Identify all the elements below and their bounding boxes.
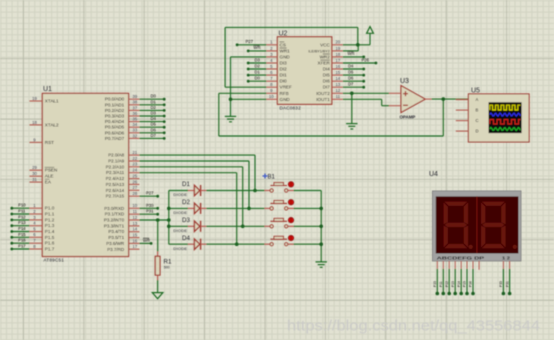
push button key 1 <box>265 182 294 192</box>
svg-text:P15: P15 <box>463 281 467 287</box>
net label D0 wire at U2 <box>247 76 267 83</box>
svg-text:21: 21 <box>132 150 137 155</box>
svg-text:P31: P31 <box>505 281 509 287</box>
net label D1 wire at U2 <box>247 69 267 76</box>
wire P3.2 to diode anode bus <box>139 219 168 221</box>
svg-text:U3: U3 <box>400 78 409 85</box>
svg-text:WR2: WR2 <box>320 54 331 59</box>
power arrow VCC <box>367 27 374 34</box>
svg-text:15: 15 <box>335 70 340 75</box>
svg-text:IOUT1: IOUT1 <box>316 97 330 102</box>
svg-text:D4: D4 <box>348 63 354 68</box>
chip body U1 <box>42 86 128 263</box>
svg-text:P10: P10 <box>18 203 26 208</box>
svg-text:36: 36 <box>132 111 137 116</box>
svg-text:P30: P30 <box>146 203 154 208</box>
svg-text:P11: P11 <box>439 281 443 287</box>
svg-text:P1.4: P1.4 <box>45 229 55 234</box>
svg-text:D1: D1 <box>255 69 261 74</box>
svg-text:RFB: RFB <box>280 91 289 96</box>
resistor R1 <box>155 252 172 281</box>
svg-text:31: 31 <box>32 177 37 182</box>
svg-text:18: 18 <box>32 120 37 125</box>
svg-text:P2.2/A10: P2.2/A10 <box>106 164 125 169</box>
junction IOUT2 ground tap <box>350 92 354 96</box>
wire P2.2 to key row 3 <box>139 167 242 227</box>
svg-text:P3.6/WR: P3.6/WR <box>106 241 125 246</box>
display pin P13 <box>451 261 457 295</box>
svg-text:20: 20 <box>335 40 340 45</box>
svg-text:P3.7/RD: P3.7/RD <box>107 247 125 252</box>
svg-text:P3.0/RXD: P3.0/RXD <box>104 206 125 211</box>
wire key 1 to ground bus <box>294 190 322 192</box>
svg-text:GND: GND <box>280 97 291 102</box>
svg-text:23: 23 <box>132 162 137 167</box>
junction key4 ground <box>319 242 323 246</box>
diode D1 <box>169 181 207 197</box>
svg-text:P0.5/AD5: P0.5/AD5 <box>105 125 125 130</box>
svg-text:D0: D0 <box>151 94 157 99</box>
wire R1 to ground <box>157 280 159 293</box>
svg-text:C: C <box>476 118 479 123</box>
display pin P14 <box>457 261 463 295</box>
svg-text:P16: P16 <box>469 281 473 287</box>
display pin P12 <box>445 261 451 295</box>
wire D3 cathode to key 3 <box>206 225 264 227</box>
wire P2.1 to key row 2 <box>139 161 249 208</box>
net label D7 wire at U2 <box>343 82 365 89</box>
svg-text:P0.7/AD7: P0.7/AD7 <box>105 136 125 141</box>
svg-text:P1.0: P1.0 <box>45 206 55 211</box>
svg-text:XFER: XFER <box>318 61 331 66</box>
push button key 4 <box>265 235 294 245</box>
svg-text:P0.6/AD6: P0.6/AD6 <box>105 130 125 135</box>
svg-text:D2: D2 <box>151 105 157 110</box>
svg-text:33: 33 <box>132 128 137 133</box>
svg-text:U1: U1 <box>43 86 52 93</box>
wire key 2 to ground bus <box>294 207 322 209</box>
display pin letters <box>437 255 511 260</box>
push button key 2 <box>265 200 294 210</box>
wire U2 IOUT1 to opamp minus <box>343 99 389 105</box>
svg-text:37: 37 <box>132 105 137 110</box>
svg-text:B1: B1 <box>268 175 276 181</box>
net label P26 wire at U2 XFER <box>343 57 378 64</box>
svg-text:P0.4/AD4: P0.4/AD4 <box>105 119 125 124</box>
svg-text:1 2: 1 2 <box>502 255 511 260</box>
svg-text:P14: P14 <box>18 226 26 231</box>
svg-text:P10: P10 <box>433 281 437 287</box>
svg-text:D7: D7 <box>348 82 354 87</box>
svg-text:27: 27 <box>132 185 137 190</box>
svg-text:P3.2/INT0: P3.2/INT0 <box>104 218 125 223</box>
svg-text:DI3: DI3 <box>280 61 288 66</box>
ground arrow below R1 <box>152 293 163 299</box>
svg-text:AT89C51: AT89C51 <box>44 258 65 263</box>
svg-text:P3.3/INT1: P3.3/INT1 <box>104 223 125 228</box>
svg-text:P16: P16 <box>18 238 26 243</box>
svg-text:13: 13 <box>335 82 340 87</box>
svg-text:14: 14 <box>132 227 137 232</box>
push button key 3 <box>265 218 294 228</box>
display U4 frame <box>432 191 521 261</box>
svg-text:DI7: DI7 <box>323 85 331 90</box>
scope trace A yellow <box>490 105 521 110</box>
wire IOUT2 to ground <box>351 93 353 123</box>
svg-text:DI0: DI0 <box>280 79 288 84</box>
svg-text:13: 13 <box>132 221 137 226</box>
svg-text:24: 24 <box>132 168 137 173</box>
wire U2 GND pin10 to ground <box>231 98 267 100</box>
display pin P11 <box>439 261 445 295</box>
diode anode bus wire <box>168 191 170 245</box>
net label D6 wire at U2 <box>343 76 365 83</box>
U2 left pins <box>266 40 292 102</box>
svg-text:IOUT2: IOUT2 <box>316 91 330 96</box>
svg-text:30: 30 <box>32 171 37 176</box>
svg-text:A: A <box>476 97 479 102</box>
ground below IOUT2 <box>346 123 357 125</box>
svg-text:19: 19 <box>335 46 340 51</box>
display pin P10 <box>433 261 439 295</box>
net label D3 wire at U2 <box>247 57 267 64</box>
svg-text:GND: GND <box>280 54 291 59</box>
svg-text:26: 26 <box>132 179 137 184</box>
svg-text:P3.1/TXD: P3.1/TXD <box>105 212 125 217</box>
svg-text:P1.5: P1.5 <box>45 235 55 240</box>
svg-text:P1.7: P1.7 <box>45 247 55 252</box>
svg-text:P1.6: P1.6 <box>45 241 55 246</box>
net label P27 wire at U1 <box>139 191 159 198</box>
display common pin P31 <box>505 261 511 295</box>
svg-text:14: 14 <box>335 76 340 81</box>
svg-text:D3: D3 <box>151 111 157 116</box>
svg-text:VCC: VCC <box>320 42 330 47</box>
U1 left control pins XTAL1/XTAL2/RST/PSEN/ALE/EA <box>29 96 59 185</box>
svg-text:P1.2: P1.2 <box>45 217 55 222</box>
net label P31 wire at U1 <box>139 209 159 216</box>
svg-text:500: 500 <box>164 266 170 270</box>
net labels D0-D7 wires at U1 port 0 <box>139 94 165 140</box>
svg-text:P2.0/A8: P2.0/A8 <box>108 153 125 158</box>
svg-text:B: B <box>476 108 479 113</box>
svg-text:29: 29 <box>32 165 37 170</box>
wire U2 GND pin3 to ground <box>231 57 267 117</box>
svg-text:P2.3/A11: P2.3/A11 <box>106 170 125 175</box>
scope trace D green <box>490 128 521 131</box>
display pin DP stub <box>478 261 480 270</box>
svg-text:16: 16 <box>335 64 340 69</box>
svg-text:P14: P14 <box>457 281 461 287</box>
svg-text:12: 12 <box>335 88 340 93</box>
svg-text:P2.6/A14: P2.6/A14 <box>106 188 125 193</box>
display digit 1 <box>444 202 473 249</box>
svg-text:10: 10 <box>269 94 274 99</box>
svg-text:P12: P12 <box>18 214 26 219</box>
svg-text:P2.1/A9: P2.1/A9 <box>108 159 125 164</box>
svg-text:P0.0/AD0: P0.0/AD0 <box>105 97 125 102</box>
svg-text:DI1: DI1 <box>280 73 288 78</box>
display pin P15 <box>463 261 469 295</box>
svg-text:19: 19 <box>32 96 37 101</box>
wire U2 VCC to power <box>343 33 370 45</box>
svg-text:P17: P17 <box>18 244 26 249</box>
svg-text:P1.1: P1.1 <box>45 212 55 217</box>
U1 pins P2.0-P2.7 <box>106 150 140 199</box>
wire P2.0 to key row 1 <box>139 155 255 190</box>
U1 pins P3.0-P3.7 <box>104 203 139 252</box>
junction opamp output <box>442 97 446 101</box>
svg-text:D2: D2 <box>182 199 190 206</box>
svg-text:D2: D2 <box>255 63 261 68</box>
svg-text:P12: P12 <box>445 281 449 287</box>
svg-text:P13: P13 <box>451 281 455 287</box>
svg-text:P0.1/AD1: P0.1/AD1 <box>105 102 125 107</box>
svg-text:OPAMP: OPAMP <box>400 115 416 120</box>
svg-text:15: 15 <box>132 233 137 238</box>
svg-text:D3: D3 <box>182 217 190 224</box>
button ground bus wire <box>320 191 322 262</box>
svg-text:P26: P26 <box>362 57 370 62</box>
junction on key row 4 <box>235 242 239 246</box>
svg-text:34: 34 <box>132 122 137 127</box>
svg-text:D5: D5 <box>151 122 157 127</box>
svg-text:P27: P27 <box>246 39 254 44</box>
svg-text:38: 38 <box>132 100 137 105</box>
scope trace C red <box>490 120 521 124</box>
svg-text:25: 25 <box>132 174 137 179</box>
svg-text:P13: P13 <box>18 220 26 225</box>
wire D4 cathode to key 4 <box>206 243 264 245</box>
wire U2 ILE to VCC node <box>343 45 358 51</box>
scope trace B blue <box>490 113 521 116</box>
U1 pins P1.0-P1.7 <box>29 203 54 251</box>
op-amp U3 <box>389 78 432 120</box>
junction on key row 1 <box>253 189 257 193</box>
svg-text:WR: WR <box>254 45 261 50</box>
svg-text:P31: P31 <box>146 209 154 214</box>
svg-text:D7: D7 <box>151 133 157 138</box>
svg-text:DI4: DI4 <box>323 67 331 72</box>
svg-text:18: 18 <box>335 52 340 57</box>
svg-text:U2: U2 <box>279 31 288 38</box>
svg-text:WR: WR <box>348 51 355 56</box>
svg-text:DI6: DI6 <box>323 79 331 84</box>
svg-text:10: 10 <box>132 203 137 208</box>
display pin P16 <box>469 261 475 295</box>
svg-text:P30: P30 <box>499 281 503 287</box>
svg-text:P2.5/A13: P2.5/A13 <box>106 182 125 187</box>
net label D2 wire at U2 <box>247 63 267 70</box>
svg-text:12: 12 <box>132 215 137 220</box>
display common pin P30 <box>499 261 505 295</box>
net label P30 wire at U1 <box>139 203 159 210</box>
svg-text:DI5: DI5 <box>323 73 331 78</box>
svg-text:P2.7/A15: P2.7/A15 <box>106 194 125 199</box>
svg-text:DIODE: DIODE <box>173 210 187 215</box>
svg-text:P15: P15 <box>18 232 26 237</box>
diode D2 <box>169 199 207 215</box>
junction VCC node <box>356 43 360 47</box>
svg-text:WR1: WR1 <box>280 48 291 53</box>
svg-text:EA: EA <box>45 180 52 185</box>
junction U2 grounds <box>229 98 233 102</box>
wire P3.2 node to R1 <box>157 220 159 252</box>
svg-text:CS: CS <box>280 42 286 47</box>
svg-text:P3.4/T0: P3.4/T0 <box>108 229 124 234</box>
svg-text:P0.3/AD3: P0.3/AD3 <box>105 114 125 119</box>
svg-text:D: D <box>476 129 479 134</box>
svg-text:P0.2/AD2: P0.2/AD2 <box>105 108 125 113</box>
svg-text:16: 16 <box>132 238 137 243</box>
svg-text:XTAL2: XTAL2 <box>45 122 59 127</box>
junction diode D2 anode <box>167 207 171 211</box>
svg-text:P3.5/T1: P3.5/T1 <box>108 235 124 240</box>
wire D1 cathode to key 1 <box>206 190 264 192</box>
scope screen <box>489 102 522 133</box>
svg-text:D1: D1 <box>151 99 157 104</box>
diode D3 <box>169 217 207 233</box>
svg-text:D1: D1 <box>182 181 190 188</box>
display digit 2 <box>481 202 517 249</box>
svg-text:D3: D3 <box>255 57 261 62</box>
junction node R1 tap <box>156 218 160 222</box>
svg-text:17: 17 <box>335 58 340 63</box>
svg-text:P1.3: P1.3 <box>45 223 55 228</box>
svg-text:11: 11 <box>336 94 341 99</box>
svg-text:28: 28 <box>132 191 137 196</box>
net label D5 wire at U2 <box>343 69 365 76</box>
svg-text:U5: U5 <box>471 87 480 94</box>
svg-text:22: 22 <box>132 156 137 161</box>
junction diode D3 anode <box>167 225 171 229</box>
svg-text:VREF: VREF <box>280 85 292 90</box>
svg-text:32: 32 <box>132 133 137 138</box>
net label WR wire at U1 <box>139 238 152 245</box>
U2 right pins <box>308 40 343 102</box>
junction key2 ground <box>319 207 323 211</box>
svg-text:P11: P11 <box>18 209 26 214</box>
svg-text:ILE/BY1/BY2: ILE/BY1/BY2 <box>308 49 330 53</box>
junction diode bus tap <box>167 218 171 222</box>
svg-text:D6: D6 <box>151 127 157 132</box>
wire opamp output to scope <box>432 98 469 100</box>
svg-text:U4: U4 <box>429 171 438 178</box>
svg-text:D0: D0 <box>255 76 261 81</box>
svg-text:DIODE: DIODE <box>173 192 187 197</box>
diode D4 <box>169 235 207 251</box>
svg-text:DAC0832: DAC0832 <box>280 105 302 110</box>
chip body U2 <box>277 31 331 111</box>
svg-text:R1: R1 <box>164 259 172 266</box>
wire key 3 to ground bus <box>294 225 322 227</box>
net label P27 wire at U2 CS <box>236 39 267 46</box>
junction on key row 2 <box>247 207 251 211</box>
wire U2 IOUT2 to opamp plus <box>343 92 389 94</box>
wire P2.3 to key row 4 <box>139 173 236 245</box>
ground below U2 left <box>225 115 236 117</box>
label B1 <box>263 174 276 181</box>
svg-text:17: 17 <box>132 244 137 249</box>
svg-text:ALE: ALE <box>45 174 54 179</box>
svg-text:WR: WR <box>143 238 150 243</box>
wire U2 VREF to VCC loop <box>225 27 358 87</box>
svg-text:D6: D6 <box>348 76 354 81</box>
net label WR wire at U2 WR2 <box>343 51 365 58</box>
svg-text:39: 39 <box>132 94 137 99</box>
svg-text:P27: P27 <box>146 191 154 196</box>
U1 pins P0.0-P0.7 AD bus <box>105 94 139 141</box>
svg-text:XTAL1: XTAL1 <box>45 99 59 104</box>
svg-text:D5: D5 <box>348 69 354 74</box>
svg-text:DIODE: DIODE <box>173 246 187 251</box>
svg-text:35: 35 <box>132 117 137 122</box>
svg-text:D4: D4 <box>182 235 190 242</box>
wire key 4 to ground bus <box>294 243 322 245</box>
svg-text:DI2: DI2 <box>280 67 288 72</box>
oscilloscope U5 <box>456 87 529 142</box>
wire U2 RFB feedback <box>219 93 443 136</box>
junction key3 ground <box>319 225 323 229</box>
net label WR wire at U2 WR1 <box>247 45 267 52</box>
svg-text:D4: D4 <box>151 116 157 121</box>
svg-text:https://blog.csdn.net/qq_43556: https://blog.csdn.net/qq_43556844 <box>287 318 540 335</box>
junction on key row 3 <box>241 225 245 229</box>
net labels P10-P17 wires at U1 port 1 <box>10 203 29 251</box>
svg-text:P2.4/A12: P2.4/A12 <box>106 176 125 181</box>
ground below buttons <box>316 261 327 263</box>
svg-text:PSEN: PSEN <box>45 168 58 173</box>
svg-text:RST: RST <box>45 140 54 145</box>
svg-text:DIODE: DIODE <box>173 228 187 233</box>
net label D4 wire at U2 <box>343 63 365 70</box>
wire D2 cathode to key 2 <box>206 207 264 209</box>
svg-text:ABCDEFG DP: ABCDEFG DP <box>437 255 485 260</box>
svg-text:11: 11 <box>133 209 138 214</box>
